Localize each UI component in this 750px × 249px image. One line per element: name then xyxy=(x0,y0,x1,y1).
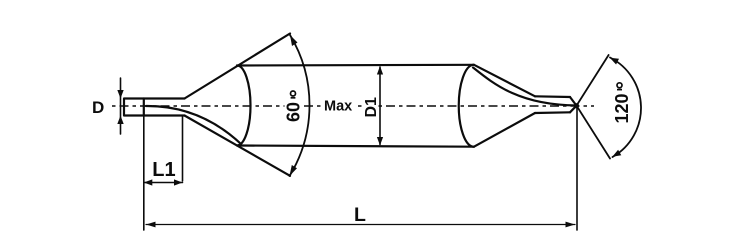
arrowhead L right xyxy=(566,222,576,228)
svg-text:D1: D1 xyxy=(363,97,380,118)
svg-text:D: D xyxy=(92,98,104,117)
left pilot drill body xyxy=(124,99,185,116)
L1 right extension line xyxy=(182,116,184,181)
arrowhead 60-arc top xyxy=(290,35,298,46)
underline bar of 120 degree mark xyxy=(617,89,622,91)
arrowhead D bottom xyxy=(117,116,123,125)
L1 left extension line (shared with L) xyxy=(143,116,145,231)
right taper upper line xyxy=(474,65,535,97)
L1 dimension line xyxy=(144,182,183,184)
svg-text:60: 60 xyxy=(284,102,304,122)
left flute curve xyxy=(146,106,241,144)
svg-text:L1: L1 xyxy=(152,159,175,181)
degree ring of 120 label xyxy=(617,83,622,88)
underline bar of 60 degree mark xyxy=(291,97,296,99)
left pilot point edge xyxy=(143,99,145,116)
left countersink mouth ellipse xyxy=(237,66,251,146)
right taper lower line xyxy=(474,113,535,147)
arrowhead L1 left xyxy=(144,179,153,185)
arrowhead D1 bottom xyxy=(377,137,383,146)
ink blob at right tip junction xyxy=(574,103,579,108)
120-deg lower angle line xyxy=(577,106,611,159)
120-deg dimension arc xyxy=(610,58,641,158)
arrowhead 60-arc bottom xyxy=(290,165,298,176)
arrowhead L left xyxy=(146,222,156,228)
arrowhead 120-arc bottom xyxy=(612,150,621,157)
right countersink mouth ellipse xyxy=(459,65,473,147)
svg-text:Max: Max xyxy=(324,99,352,115)
white backing behind D1 label xyxy=(362,100,379,112)
right flute curve xyxy=(473,68,577,106)
arrowhead 120-arc top xyxy=(610,58,619,65)
120-deg upper angle line xyxy=(577,55,609,106)
svg-text:L: L xyxy=(354,204,366,226)
D dimension line xyxy=(120,78,122,134)
L right extension line xyxy=(576,108,578,230)
degree ring of 60 label xyxy=(291,91,296,96)
svg-text:120: 120 xyxy=(612,93,632,123)
right pilot top edge xyxy=(535,95,570,98)
L dimension line xyxy=(146,224,575,226)
arrowhead D top xyxy=(117,90,123,99)
left 60-deg cone upper line xyxy=(185,34,291,99)
arrowhead D1 top xyxy=(377,66,383,75)
body bottom edge xyxy=(238,146,474,147)
arrowhead L1 right xyxy=(174,179,183,185)
left 60-deg cone lower line xyxy=(185,116,291,176)
body top edge xyxy=(237,64,474,67)
D1 dimension line xyxy=(379,67,381,145)
centerline (dash-dot axis) xyxy=(112,105,594,107)
right pilot point chevron xyxy=(570,97,577,112)
60-deg dimension arc xyxy=(290,35,310,176)
white backing behind 60 label xyxy=(285,100,302,112)
right pilot bottom edge xyxy=(535,111,570,114)
white backing behind Max xyxy=(324,98,356,112)
